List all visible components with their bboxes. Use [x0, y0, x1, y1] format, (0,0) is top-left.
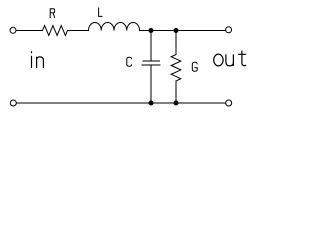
node: ground terminal bottom-right — [226, 100, 232, 106]
label out — [214, 54, 223, 66]
wire: capacitor to bottom rail — [150, 65, 152, 103]
label G — [192, 62, 197, 71]
wire: input to resistor — [16, 30, 42, 32]
node A: top junction at capacitor — [149, 29, 153, 33]
node: input terminal top-left — [10, 27, 16, 33]
resistor G (shunt conductance) — [171, 55, 181, 82]
label L — [99, 8, 102, 16]
node D: bottom junction at conductance — [174, 101, 178, 105]
wire: conductance to bottom rail — [175, 81, 177, 103]
label R — [50, 9, 54, 18]
capacitor C — [142, 61, 160, 65]
node C: bottom junction at capacitor — [149, 101, 153, 105]
wire: resistor to inductor — [68, 30, 89, 32]
inductor L — [89, 23, 140, 31]
node: output terminal top-right — [226, 27, 232, 33]
wire: inductor to output terminal — [140, 30, 226, 32]
label C — [127, 57, 132, 66]
node: ground terminal bottom-left — [10, 100, 16, 106]
wire: node B down to conductance — [175, 31, 177, 55]
resistor R — [43, 26, 68, 36]
wire: node A down to capacitor — [150, 31, 152, 62]
node B: top junction at conductance — [174, 29, 178, 33]
label in — [32, 51, 44, 68]
wire: bottom rail — [17, 102, 226, 104]
